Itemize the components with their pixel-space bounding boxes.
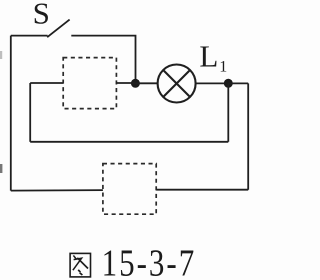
junction node A	[131, 79, 140, 88]
wire: node B to outer top-right corner	[228, 82, 248, 84]
dashed box 2 (component placeholder)	[103, 164, 156, 215]
svg-text:1: 1	[219, 59, 227, 76]
wire: outer right vertical	[247, 83, 249, 189]
wire: inner-loop left corner to box 1	[30, 82, 63, 84]
svg-text:S: S	[33, 0, 50, 31]
wire: outer bottom left segment to box 2	[11, 189, 103, 192]
wire: inner loop right vertical (node B down)	[227, 83, 229, 142]
svg-text:L: L	[199, 39, 218, 74]
scan artifact left edge upper	[0, 51, 2, 59]
wire: box 2 to outer bottom-right corner	[156, 189, 248, 191]
wire: outer left vertical	[10, 36, 12, 191]
wire: top-left horizontal to switch left contact	[11, 35, 48, 37]
switch S blade	[47, 20, 69, 38]
svg-text:15-3-7: 15-3-7	[102, 242, 197, 280]
wire: box 1 to node A	[116, 82, 135, 84]
scan artifact left edge lower	[0, 164, 2, 173]
junction node B	[224, 79, 233, 88]
wire: node A to lamp	[135, 82, 158, 84]
caption character 图	[70, 253, 90, 277]
dashed box 1 (component placeholder)	[63, 58, 116, 109]
lamp L1 circle	[158, 65, 196, 103]
wire: inner loop bottom	[30, 141, 228, 143]
wire: inner loop left vertical	[29, 83, 31, 142]
caption text 15-3-7	[102, 242, 197, 280]
wire: switch right contact to top-right corner, down to node A	[71, 36, 135, 84]
wire: lamp to node B	[195, 82, 228, 84]
lamp L1 cross	[163, 70, 189, 96]
